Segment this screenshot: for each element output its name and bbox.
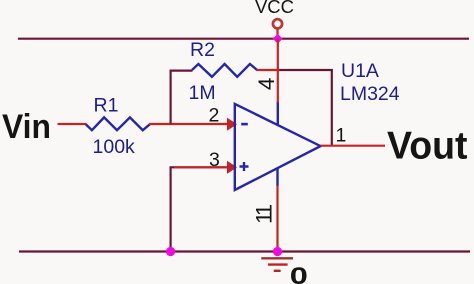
wire ground bottom rail [19,250,470,252]
svg-text:Vout: Vout [387,125,468,168]
ground symbol bar 2 [268,263,288,265]
svg-text:1: 1 [336,124,347,146]
svg-text:11: 11 [252,204,277,224]
pin arrowhead pin 3 [227,161,237,174]
ground symbol bar 3 [274,270,281,272]
op-amp minus input mark [241,123,248,126]
svg-text:4: 4 [254,78,279,91]
svg-text:U1A: U1A [341,60,379,82]
junction dot top rail [273,34,283,44]
wire VCC stub [276,29,278,38]
svg-text:R1: R1 [94,94,119,116]
svg-text:VCC: VCC [255,0,294,17]
wire VCC to pin 4 [277,39,279,103]
pin 4 power stub [277,102,279,125]
op-amp U1 triangle [235,104,321,190]
svg-text:2: 2 [209,105,220,127]
wire feedback left vertical (R2 left) [171,71,193,124]
resistor R1 [86,117,150,130]
op-amp plus input mark [240,162,249,171]
wire ground riser to pin 3 [171,167,230,251]
wire R2 right lead red [257,69,281,71]
junction dot bottom rail ground [273,247,282,256]
resistor R2 [192,64,257,77]
wire pin 11 to ground rail [276,186,278,252]
node 0 label [290,263,308,284]
wire VCC top rail [18,38,469,40]
wire R1 to op-amp pin 2 [149,123,230,125]
svg-text:R2: R2 [190,39,215,61]
wire pin 3 red segment [174,166,230,168]
svg-text:Vin: Vin [2,108,51,146]
wire feedback right maroon [280,70,332,146]
svg-text:LM324: LM324 [340,83,400,105]
power symbol VCC circle [273,19,282,28]
pin 11 power stub [276,168,278,186]
junction dot bottom rail left [166,247,175,256]
wire Vin to R1 [58,123,87,125]
svg-text:100k: 100k [93,136,136,158]
ground symbol bar 1 [261,257,293,259]
wire output [321,145,386,147]
svg-text:1M: 1M [189,82,216,104]
svg-text:0: 0 [290,263,308,284]
pin arrowhead pin 2 [227,118,237,131]
